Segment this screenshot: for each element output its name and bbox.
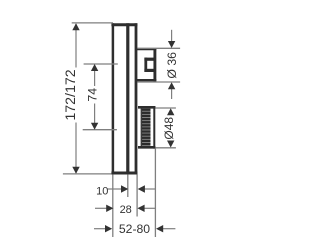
dimension 74 bottom arrowhead bbox=[91, 123, 98, 130]
svg-text:52-80: 52-80 bbox=[119, 222, 150, 236]
svg-text:28: 28 bbox=[120, 204, 132, 216]
dimension Ø48 top arrowhead (pointing up) bbox=[167, 108, 174, 115]
extension line below plate front face bbox=[136, 174, 138, 216]
dimension 10 leader line bbox=[108, 188, 123, 190]
dimension 172/172 extension line bottom bbox=[63, 173, 112, 175]
escutcheon plate right edge (front face) bbox=[135, 23, 138, 174]
escutcheon plate bottom edge bbox=[111, 172, 137, 175]
knurled grip texture bbox=[141, 109, 151, 146]
top handle (select button, Ø36) outline bbox=[136, 48, 156, 81]
dimension Ø36 extension line top bbox=[137, 47, 180, 49]
bottom handle (thermostat knob, Ø48) outline bbox=[138, 106, 155, 149]
dimension Ø36 extension line bottom bbox=[137, 81, 180, 83]
dimension 10 right arrowhead (pointing left) bbox=[138, 185, 145, 192]
svg-text:74: 74 bbox=[85, 88, 99, 102]
wall line / escutcheon plate left edge bbox=[112, 23, 115, 174]
dimension 52-80 left tail line bbox=[94, 228, 106, 230]
plate inner face line bbox=[126, 23, 129, 174]
dimension 74 extension line bottom (lower handle axis) bbox=[83, 129, 117, 131]
extension line below wall/plate left edge bbox=[112, 174, 114, 237]
dimension 52-80 right tail line bbox=[163, 228, 176, 230]
dimension 52-80 right arrowhead (pointing left) bbox=[156, 225, 163, 232]
dimension 172/172 bottom arrowhead bbox=[72, 167, 79, 174]
dimension 74 extension line top (upper handle axis) bbox=[84, 63, 118, 65]
dimension 74 dimension line upper segment bbox=[94, 71, 96, 87]
escutcheon plate top edge bbox=[111, 23, 137, 26]
dimension 28 left tail line bbox=[95, 207, 107, 209]
dimension 10 left arrowhead (pointing right) bbox=[121, 185, 128, 192]
dimension 172/172 extension line top bbox=[72, 22, 113, 24]
dimension 28 right arrowhead (pointing left) bbox=[137, 205, 144, 212]
dimension 28 left arrowhead (pointing right) bbox=[106, 205, 113, 212]
top handle notch (button recess) bbox=[144, 58, 155, 72]
dimension Ø36 dimension line lower stem bbox=[171, 89, 173, 99]
dimension Ø36 dimension line upper stem bbox=[171, 30, 173, 42]
knurled grip left edge bbox=[140, 109, 142, 146]
extension line below handle front face bbox=[154, 149, 156, 237]
dimension Ø36 bottom arrowhead (pointing up) bbox=[168, 82, 175, 89]
dimension Ø48 bottom arrowhead (pointing down) bbox=[167, 141, 174, 148]
extension line below plate inner face bbox=[127, 174, 129, 197]
dimension 74 dimension line lower segment bbox=[94, 104, 96, 124]
dimension Ø36 top arrowhead (pointing down) bbox=[168, 41, 175, 48]
dimension 28 right tail line bbox=[144, 207, 156, 209]
svg-text:10: 10 bbox=[96, 185, 108, 197]
dimension Ø48 extension line bottom bbox=[155, 147, 176, 149]
svg-text:172/172: 172/172 bbox=[63, 69, 79, 120]
dimension 10 right tail line bbox=[144, 188, 155, 190]
dimension 172/172 dimension line lower segment bbox=[75, 123, 77, 174]
dimension 52-80 left arrowhead (pointing right) bbox=[105, 225, 112, 232]
svg-text:Ø48: Ø48 bbox=[162, 117, 176, 140]
dimension Ø48 extension line top bbox=[155, 107, 176, 109]
dimension 172/172 dimension line upper segment bbox=[75, 24, 77, 68]
dimension 172/172 top arrowhead bbox=[72, 23, 79, 30]
svg-text:Ø 36: Ø 36 bbox=[165, 52, 179, 79]
dimension 74 top arrowhead bbox=[91, 64, 98, 71]
